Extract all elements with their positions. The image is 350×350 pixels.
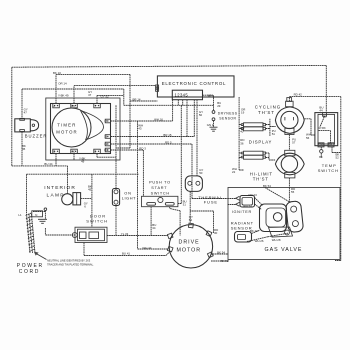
svg-text:SWITCH: SWITCH: [86, 218, 108, 223]
svg-text:START: START: [151, 186, 167, 190]
svg-text:TH'ST: TH'ST: [253, 176, 269, 181]
svg-text:NEUTRAL LINE IDENTIFIED BY 2X3: NEUTRAL LINE IDENTIFIED BY 2X3: [47, 259, 91, 263]
svg-text:GY 52: GY 52: [101, 94, 110, 98]
svg-text:SENSOR: SENSOR: [219, 117, 236, 121]
svg-text:53: 53: [189, 218, 193, 222]
svg-text:BUZZER: BUZZER: [25, 133, 48, 138]
svg-text:31: 31: [183, 203, 187, 207]
svg-text:RD 23: RD 23: [249, 193, 258, 197]
svg-text:POWER: POWER: [17, 263, 44, 269]
svg-text:45: 45: [88, 188, 92, 192]
svg-text:45: 45: [22, 147, 26, 151]
svg-text:43: 43: [138, 127, 142, 131]
svg-text:51: 51: [272, 132, 276, 136]
svg-text:Y-BK 49: Y-BK 49: [58, 93, 69, 97]
svg-text:44: 44: [319, 109, 323, 113]
svg-text:SWITCH: SWITCH: [318, 168, 339, 173]
svg-text:RD 5: RD 5: [165, 141, 172, 145]
svg-text:WH 24: WH 24: [243, 204, 252, 208]
svg-text:TRACER AND TIN PLATED TERMINAL: TRACER AND TIN PLATED TERMINAL.: [47, 262, 94, 266]
svg-text:RD 42: RD 42: [294, 92, 303, 96]
svg-text:DRYNESS: DRYNESS: [218, 112, 238, 116]
svg-text:BK 10: BK 10: [53, 71, 61, 75]
svg-text:34: 34: [152, 226, 156, 230]
svg-text:YL 33: YL 33: [121, 232, 129, 236]
svg-text:DISPLAY: DISPLAY: [249, 140, 272, 145]
svg-text:BK: BK: [72, 104, 76, 108]
svg-text:19: 19: [241, 111, 245, 115]
svg-text:22: 22: [232, 170, 236, 174]
svg-text:PUSH TO: PUSH TO: [149, 180, 171, 184]
svg-text:BK 20: BK 20: [250, 229, 258, 233]
svg-text:LIGHT: LIGHT: [122, 196, 136, 201]
svg-text:50: 50: [199, 171, 203, 175]
svg-text:55: 55: [291, 190, 295, 194]
svg-text:56: 56: [306, 136, 310, 140]
svg-text:RD: RD: [104, 148, 108, 152]
svg-text:12345: 12345: [175, 93, 189, 98]
svg-text:CYCLING: CYCLING: [255, 104, 282, 109]
svg-text:50: 50: [199, 113, 203, 117]
svg-text:OR 14: OR 14: [58, 81, 67, 85]
svg-text:IGNITER: IGNITER: [232, 210, 252, 214]
svg-text:FUSE: FUSE: [204, 200, 218, 205]
svg-text:CORD: CORD: [19, 269, 40, 275]
svg-text:29: 29: [217, 104, 221, 108]
svg-text:40: 40: [240, 129, 244, 133]
svg-text:RD: RD: [329, 142, 333, 146]
svg-text:TIMER: TIMER: [57, 123, 76, 128]
svg-text:B: B: [54, 150, 56, 154]
svg-text:BR 14: BR 14: [133, 97, 141, 101]
svg-text:WH 43: WH 43: [143, 246, 152, 250]
svg-text:36: 36: [240, 141, 244, 145]
svg-text:MOTOR: MOTOR: [56, 130, 77, 135]
svg-text:DRIVE: DRIVE: [179, 239, 200, 245]
svg-text:ELECTRONIC CONTROL: ELECTRONIC CONTROL: [162, 81, 227, 86]
svg-text:MOTOR: MOTOR: [177, 248, 202, 254]
svg-text:WH 26: WH 26: [255, 239, 264, 243]
svg-text:BR 15: BR 15: [163, 133, 171, 137]
svg-text:BK: BK: [319, 155, 323, 159]
svg-text:WH 16: WH 16: [154, 117, 163, 121]
svg-text:N: N: [35, 213, 37, 217]
svg-text:GD: GD: [72, 150, 76, 154]
svg-text:BU 44: BU 44: [44, 162, 52, 166]
svg-text:52: 52: [336, 156, 340, 160]
svg-text:BK 54: BK 54: [263, 184, 271, 188]
svg-text:GN 1: GN 1: [207, 123, 214, 127]
svg-text:PNK: PNK: [318, 142, 324, 146]
svg-text:RD 3: RD 3: [139, 147, 146, 151]
svg-text:57: 57: [292, 141, 296, 145]
svg-text:BK 54: BK 54: [217, 251, 225, 255]
svg-text:LAMP: LAMP: [47, 193, 65, 199]
svg-text:L1: L1: [18, 213, 22, 217]
svg-text:49: 49: [81, 160, 85, 164]
svg-text:WH: WH: [208, 94, 213, 98]
svg-text:INTERIOR: INTERIOR: [44, 185, 76, 191]
svg-text:A: A: [54, 104, 56, 108]
svg-text:WH 28: WH 28: [272, 238, 281, 242]
svg-text:30: 30: [214, 231, 218, 235]
svg-text:BK 52: BK 52: [221, 259, 229, 263]
svg-text:SWITCH: SWITCH: [151, 192, 170, 196]
svg-text:BU: BU: [323, 115, 327, 119]
svg-text:B: B: [95, 150, 97, 154]
svg-text:47: 47: [24, 111, 28, 115]
svg-text:BU 41: BU 41: [122, 252, 130, 256]
svg-text:TH'ST: TH'ST: [258, 110, 275, 115]
svg-text:GY-BK: GY-BK: [318, 126, 326, 130]
svg-text:47: 47: [88, 93, 92, 97]
svg-text:GAS VALVE: GAS VALVE: [265, 247, 303, 253]
